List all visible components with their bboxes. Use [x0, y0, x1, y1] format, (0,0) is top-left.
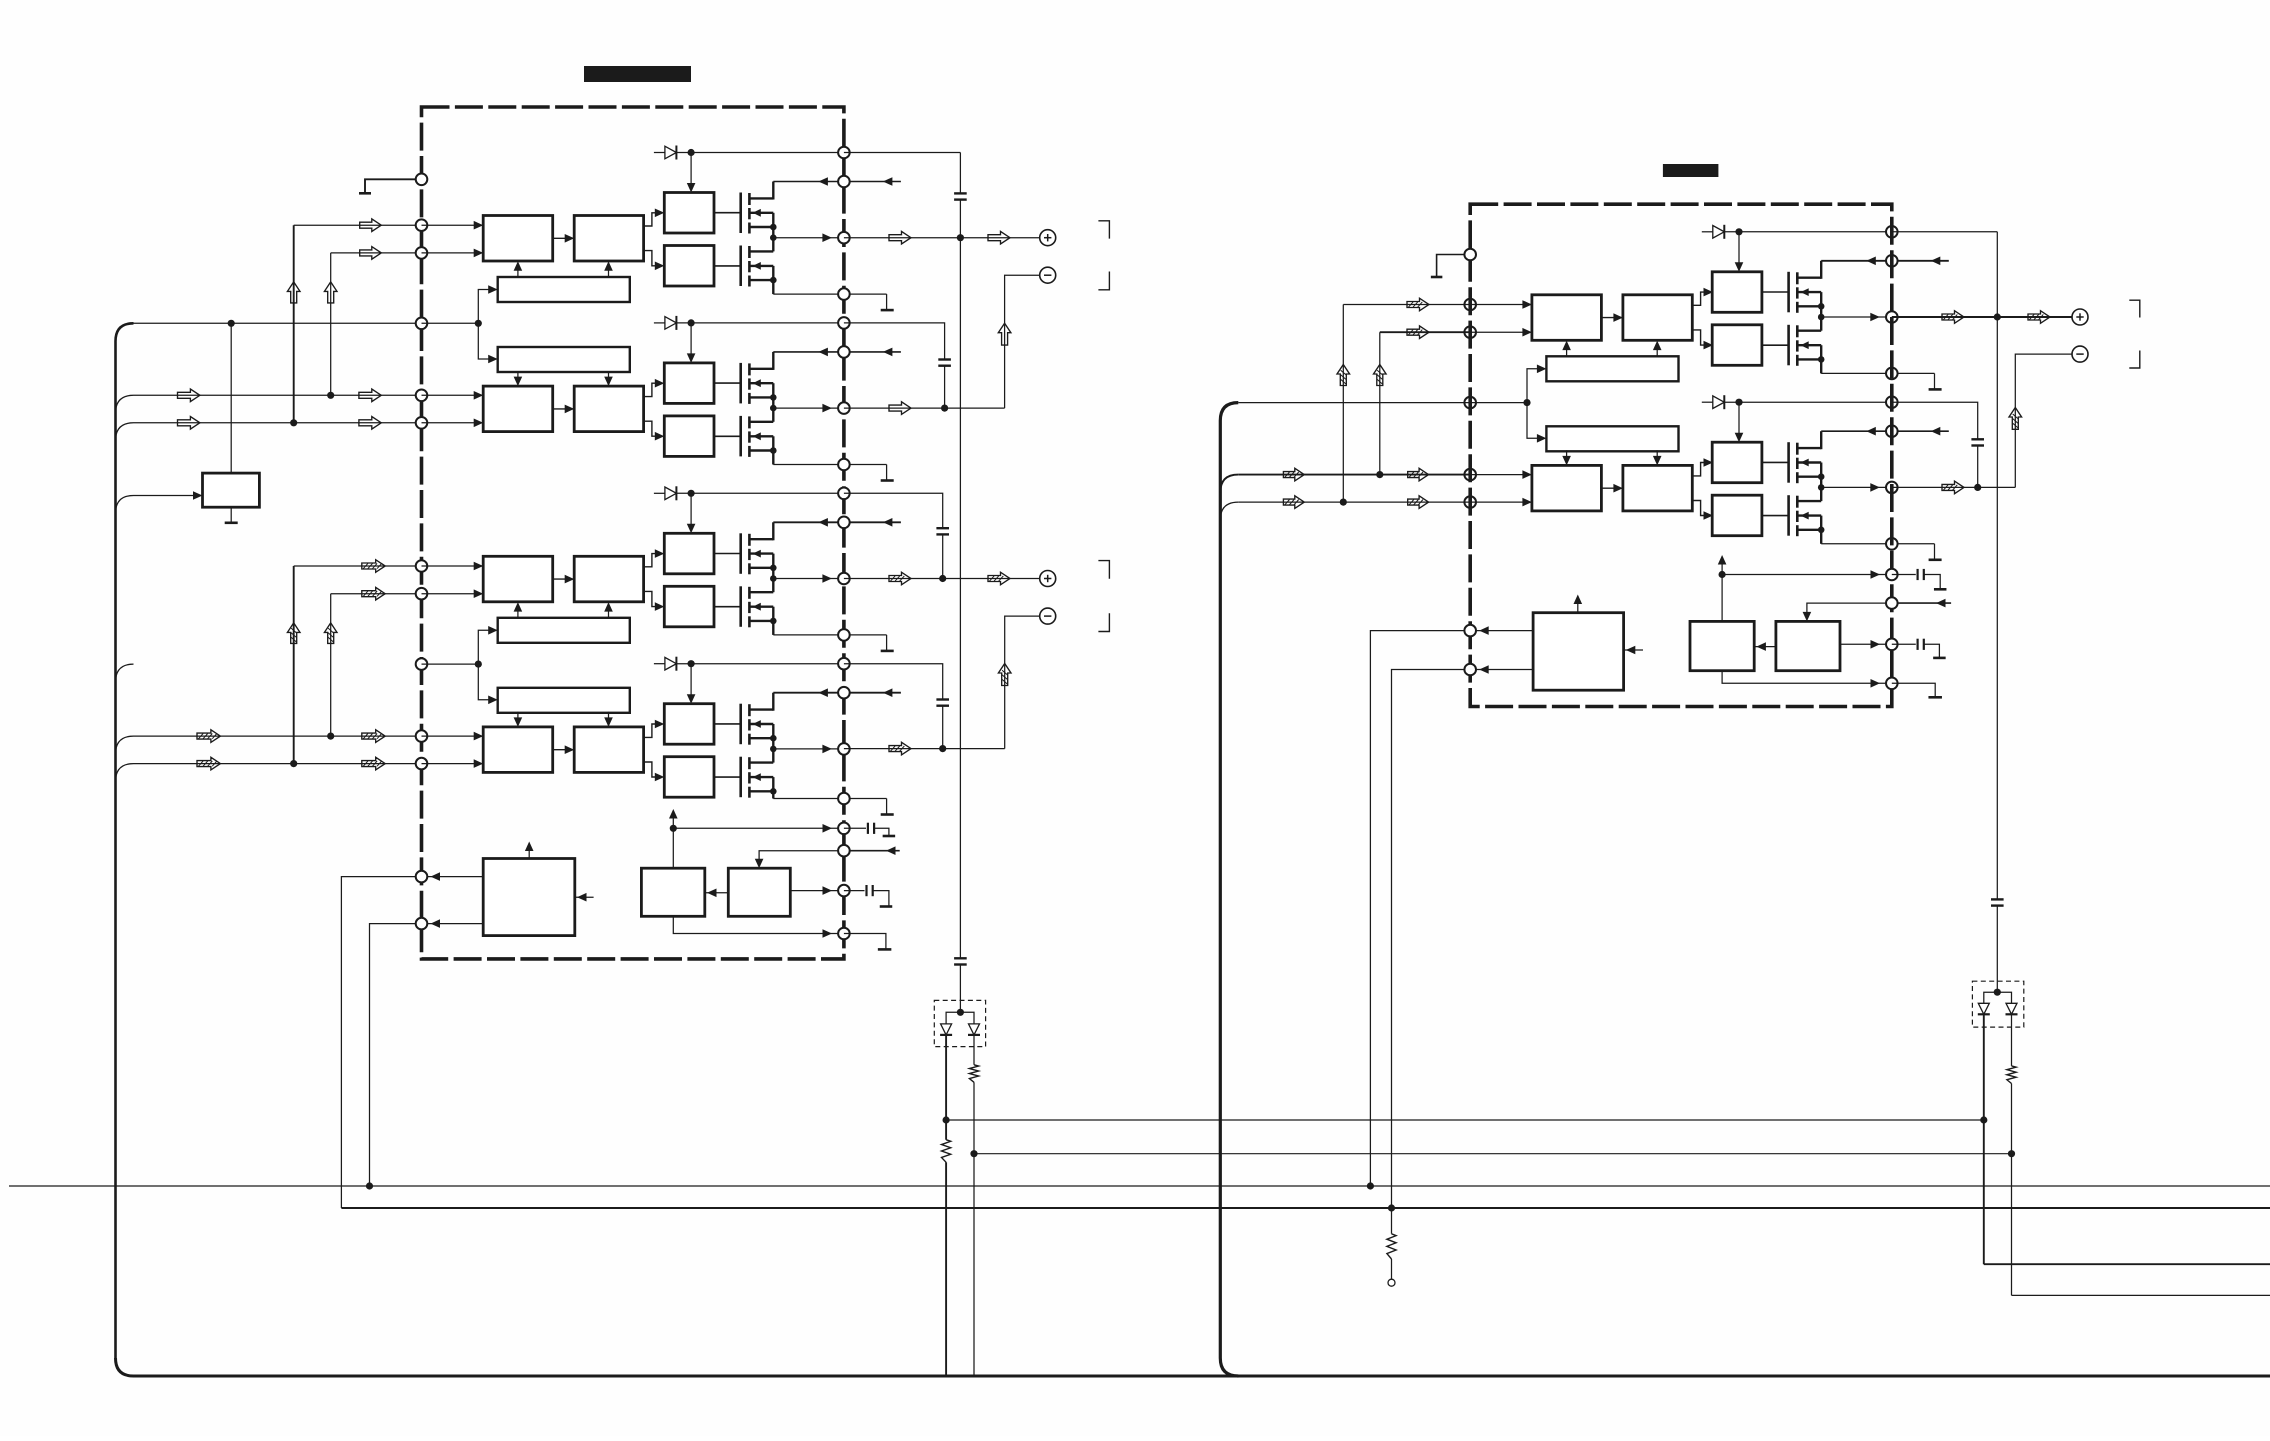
wire R-IN-B row: [1380, 331, 1470, 333]
junction outR1: [1994, 313, 2001, 320]
pin input A-hi: [416, 560, 428, 572]
terminal ROUT-: [2072, 346, 2088, 362]
wire output row inside: [773, 237, 844, 239]
wire source ground stub: [1892, 543, 1935, 545]
wire zener tops right: [1984, 992, 2012, 1003]
wire driver to gate high: [714, 212, 741, 214]
wire block1 to block2 (2): [1601, 487, 1623, 489]
transistor high-side MOSFET: [739, 704, 742, 745]
wire source row: [1821, 543, 1892, 545]
gate driver block low: [664, 586, 714, 627]
gate driver block high: [1712, 442, 1762, 483]
block level shift 1: [574, 556, 643, 602]
transistor high-side MOSFET: [739, 363, 742, 404]
wire to gate driver low 1: [1692, 330, 1709, 345]
resistor RL2: [969, 1065, 978, 1083]
wire input b2 to PWM block: [1470, 501, 1532, 503]
wire block1 to block2: [553, 237, 575, 239]
block PWM logic 2: [1532, 465, 1602, 511]
gate driver block low: [664, 246, 714, 287]
pin output: [838, 743, 850, 755]
gate driver block low: [664, 757, 714, 798]
pin input A-lo: [416, 390, 428, 402]
wire out4 row: [844, 748, 1005, 750]
wire driver to gate low: [1762, 515, 1789, 517]
diode zener R1: [1978, 1003, 1989, 1014]
block dead-time ctrl 2: [1546, 426, 1678, 451]
wire source row: [773, 464, 844, 466]
pin bootstrap: [838, 488, 850, 500]
wire source ground stub: [844, 634, 887, 636]
junction link2: [970, 1150, 977, 1157]
wire driver to gate low: [714, 776, 741, 778]
bootstrap diode: [1702, 401, 1713, 403]
pin vreg2: [1886, 569, 1898, 581]
wire input b2 to PWM block: [422, 422, 484, 424]
capacitor vreg: [844, 827, 866, 829]
wire ref2 to osc2: [1754, 646, 1776, 648]
wire error2 out B: [1470, 669, 1533, 671]
ground: [881, 479, 894, 482]
block reference: [728, 868, 790, 916]
wire drain row: [773, 351, 844, 353]
pin input B-hi: [416, 588, 428, 600]
wire outR1 row: [1892, 316, 2072, 318]
junction: [327, 392, 334, 399]
ground: [225, 521, 238, 524]
ground: [1929, 558, 1942, 561]
wire input b2 to PWM block: [422, 763, 484, 765]
pin output: [838, 232, 850, 244]
block dead-time ctrl 1: [498, 277, 630, 302]
pin VREF with stub: [365, 179, 422, 193]
bootstrap diode: [654, 663, 665, 665]
pin input A-hi: [1464, 299, 1476, 311]
wire status line B: [341, 1207, 2270, 1209]
capacitor vreg2: [1892, 574, 1916, 576]
ground: [1929, 388, 1942, 391]
wire block1 to block2: [1601, 317, 1623, 319]
pin bootstrap: [838, 317, 850, 329]
pin agnd2: [1886, 678, 1898, 690]
wire zener R2 branch: [2011, 1014, 2013, 1066]
wire feedback right 1: [1984, 1263, 2270, 1265]
junction: [1735, 399, 1742, 406]
wire to high driver: [690, 493, 692, 524]
transistor low-side MOSFET: [739, 586, 742, 627]
wire driver to gate low: [714, 435, 741, 437]
capacitor bootR2: [1971, 438, 1984, 440]
wire block1 to block2 (2): [553, 749, 575, 751]
wire standby ground: [230, 507, 232, 523]
pin output: [838, 573, 850, 585]
diode zener L1: [941, 1024, 952, 1035]
wire bootstrap row: [1724, 231, 1892, 233]
block level shift 1: [574, 216, 643, 262]
wire output row inside: [1821, 316, 1892, 318]
transistor low-side MOSFET: [739, 246, 742, 287]
block PWM logic 2: [483, 727, 553, 773]
pin input B-lo: [416, 417, 428, 429]
wire source ground stub: [844, 798, 887, 800]
wire driver to gate high: [714, 553, 741, 555]
pin ref2 stub: [1892, 602, 1951, 604]
wire R-IN2B row: [1238, 501, 1470, 503]
wire boot/zener column right: [1996, 232, 1998, 900]
ground: [881, 813, 894, 816]
wire source ground stub: [844, 464, 887, 466]
transistor low-side MOSFET: [1787, 325, 1790, 366]
pin source: [838, 793, 850, 805]
wire R-INB feeder vertical: [1379, 332, 1381, 474]
wire to gate driver high 2: [644, 383, 661, 396]
wire IN2B row: [134, 422, 422, 424]
junction out4: [939, 745, 946, 752]
wire to high driver: [690, 664, 692, 695]
pin input B-lo: [1464, 496, 1476, 508]
wire drain supply stub: [844, 181, 901, 183]
wire drain row: [1821, 430, 1892, 432]
junction: [1340, 499, 1347, 506]
wire standby row from bus: [134, 495, 198, 497]
pin drain: [1886, 425, 1898, 437]
wire out1 row: [844, 237, 1040, 239]
wire OUT2- link: [1005, 616, 1040, 749]
junction link2 right: [2008, 1150, 2015, 1157]
wire to gate driver low 1: [644, 591, 661, 606]
wire outR2 row: [1892, 486, 2016, 488]
wire source row: [773, 634, 844, 636]
pin bootstrap: [838, 658, 850, 670]
pin error2 B: [1464, 664, 1476, 676]
transistor high-side MOSFET: [739, 193, 742, 234]
transistor high-side MOSFET: [739, 533, 742, 574]
wire err drop left A: [370, 924, 416, 1186]
junction: [228, 320, 235, 327]
wire IN2A row: [134, 394, 422, 396]
wire to gate driver low 1: [644, 251, 661, 266]
wire ROUT- link: [2015, 354, 2072, 487]
wire driver to gate low: [714, 606, 741, 608]
wire bootstrap row: [1724, 401, 1892, 403]
wire output row inside: [773, 578, 844, 580]
wire IN3A feeder vertical: [293, 566, 295, 764]
pin output: [1886, 311, 1898, 323]
pin agnd: [838, 928, 850, 940]
junction link1 right: [1980, 1116, 1987, 1123]
wire input a2 to PWM block: [422, 394, 484, 396]
bracket speaker 2 bottom: [1098, 613, 1109, 631]
wire bootR1 top: [1892, 231, 1998, 233]
block level shift 2: [574, 386, 643, 432]
wire output row inside: [773, 748, 844, 750]
wire bus branch: [116, 664, 134, 682]
wire to high driver: [690, 153, 692, 184]
wire IN3B feeder vertical: [330, 594, 332, 736]
junction zener right: [1994, 989, 2001, 996]
gate driver block high: [664, 193, 714, 234]
wire IN1A feeder vertical: [293, 225, 295, 423]
resistor RL1: [942, 1140, 951, 1163]
wire left vertical bus: [116, 323, 134, 1358]
wire to gate driver high 1: [644, 554, 661, 567]
wire input a2 to PWM block: [422, 735, 484, 737]
IC1 label bar: [584, 66, 691, 82]
bracket speaker 1 bottom: [1098, 272, 1109, 290]
pin drain: [838, 346, 850, 358]
pin osc2 cap: [1886, 639, 1898, 651]
wire right vertical bus: [1220, 403, 1238, 1376]
bracket speaker 1 top: [1098, 221, 1109, 239]
wire protection2 up arrow: [1577, 598, 1579, 613]
wire boot4: [844, 664, 943, 700]
wire to gate driver low 2: [1692, 501, 1709, 516]
IC2 power driver outline: [1470, 204, 1892, 706]
wire driver to gate low: [714, 265, 741, 267]
wire osc top node: [672, 812, 674, 868]
pin error2 A: [1464, 625, 1476, 637]
wire output row inside: [1821, 486, 1892, 488]
wire input a2 to PWM block: [1470, 474, 1532, 476]
wire output row inside: [773, 407, 844, 409]
wire ref to osc: [705, 892, 729, 894]
pin drain: [1886, 255, 1898, 267]
gate driver block low: [1712, 325, 1762, 366]
block PWM logic 1: [1532, 295, 1602, 341]
pin input B-lo: [416, 758, 428, 770]
wire error out B: [422, 923, 484, 925]
junction: [688, 660, 695, 667]
capacitor decouple right: [1991, 898, 2004, 900]
block level shift 1: [1623, 295, 1692, 341]
capacitor decouple left: [954, 957, 967, 959]
wire bus branch: [1220, 475, 1238, 493]
pin source: [838, 629, 850, 641]
pin input A-lo: [416, 730, 428, 742]
transistor low-side MOSFET: [739, 416, 742, 457]
wire drain supply stub: [844, 521, 901, 523]
wire to gate driver low 2: [644, 762, 661, 777]
pin mode: [416, 658, 428, 670]
junction: [1735, 228, 1742, 235]
bootstrap diode: [654, 492, 665, 494]
bootstrap diode: [654, 322, 665, 324]
wire bootstrap row: [676, 492, 844, 494]
wire err drop left B: [341, 877, 415, 1208]
wire bootstrap row: [676, 322, 844, 324]
bootstrap diode: [1702, 231, 1713, 233]
wire bootR2: [1892, 402, 1978, 439]
block protection logic 2: [1533, 613, 1624, 691]
terminal OUT1+: [1040, 230, 1056, 246]
gate driver block high: [1712, 272, 1762, 313]
pin error B: [416, 918, 428, 930]
block PWM logic 2: [483, 386, 553, 432]
wire out2 row: [844, 407, 1005, 409]
wire R-INA feeder vertical: [1342, 305, 1344, 503]
wire driver to gate low: [1762, 344, 1789, 346]
wire to high driver: [1738, 402, 1740, 433]
pin osc cap: [838, 885, 850, 897]
junction: [327, 733, 334, 740]
wire out3 row: [844, 578, 1040, 580]
pin source: [1886, 368, 1898, 380]
wire feedback right 2: [2012, 1294, 2270, 1296]
wire R mode row from bus: [1238, 402, 1470, 404]
resistor RR2: [2007, 1066, 2016, 1084]
diode zener R2: [2006, 1003, 2017, 1014]
wire bus branch: [116, 764, 134, 782]
gate driver block low: [1712, 495, 1762, 536]
wire dtc2 to blocks: [1566, 450, 1568, 463]
block PWM logic 1: [483, 556, 553, 602]
gate driver block high: [664, 704, 714, 745]
block reference 2: [1776, 621, 1840, 670]
pin error A: [416, 871, 428, 883]
wire bus branch: [1220, 502, 1238, 520]
ground: [881, 650, 894, 653]
pin input B-hi: [1464, 326, 1476, 338]
block dead-time ctrl 2: [498, 347, 630, 372]
wire dtc2 to blocks: [517, 712, 519, 725]
wire ref2 top feed: [1807, 603, 1892, 618]
pin bootstrap: [838, 147, 850, 159]
pin mode: [416, 318, 428, 330]
wire dtc2 to blocks: [517, 371, 519, 384]
junction: [688, 149, 695, 156]
wire bootstrap row: [676, 152, 844, 154]
transistor high-side MOSFET: [1787, 442, 1790, 483]
wire block1 to block2: [553, 578, 575, 580]
gate driver block high: [664, 533, 714, 574]
wire IN1B feeder vertical: [330, 253, 332, 395]
pin ref stub: [844, 850, 900, 852]
block protection logic: [483, 859, 575, 936]
wire bootstrap row: [676, 663, 844, 665]
junction: [1376, 471, 1383, 478]
wire dtc1 to blocks: [517, 264, 519, 278]
wire protection up arrow: [528, 845, 530, 859]
capacitor boot3: [936, 527, 949, 529]
wire to gate driver high 2: [1692, 463, 1709, 476]
junction A-right: [1367, 1182, 1374, 1189]
gate driver block high: [664, 363, 714, 404]
wire boot/zener column: [959, 153, 961, 194]
pin bootstrap: [1886, 226, 1898, 238]
wire osc2 cap row: [1840, 643, 1892, 645]
wire to high driver: [690, 323, 692, 354]
pin input B-hi: [416, 247, 428, 259]
wire bus branch: [116, 736, 134, 754]
transistor low-side MOSFET: [1787, 495, 1790, 536]
wire zener tops: [946, 1012, 974, 1024]
diode zener L2: [969, 1024, 980, 1035]
pin bootstrap: [1886, 396, 1898, 408]
wire block1 to block2 (2): [553, 408, 575, 410]
block standby regulator: [203, 473, 260, 507]
pin vreg: [838, 823, 850, 835]
wire drain row: [1821, 260, 1892, 262]
wire agnd stub: [844, 934, 886, 950]
wire mode node: [422, 322, 479, 324]
junction out3: [939, 575, 946, 582]
wire IN3A row: [294, 565, 422, 567]
wire source ground stub: [1892, 372, 1935, 374]
wire drain row: [773, 181, 844, 183]
junction outR2: [1974, 484, 1981, 491]
wire to gate driver high 1: [644, 213, 661, 226]
pin output: [1886, 482, 1898, 494]
resistor pull-down: [1387, 1234, 1396, 1259]
wire IN1B row: [331, 252, 422, 254]
terminal OUT2-: [1040, 608, 1056, 624]
zener clamp box right: [1972, 981, 2023, 1027]
wire input b to PWM block: [422, 593, 484, 595]
wire to gate driver high 1: [1692, 292, 1709, 305]
junction out2: [941, 405, 948, 412]
terminal OUT1-: [1040, 267, 1056, 283]
wire protection right stub: [575, 896, 594, 898]
wire link row 1: [946, 1119, 1984, 1121]
pin input A-hi: [416, 219, 428, 231]
wire driver to gate high: [714, 723, 741, 725]
wire vreg2 row: [1722, 574, 1892, 576]
ground: [881, 309, 894, 312]
wire IN3B row: [331, 593, 422, 595]
pin source: [838, 288, 850, 300]
wire IN1A row: [294, 224, 422, 226]
wire dtc1 to blocks: [1566, 343, 1568, 357]
wire source ground stub: [844, 293, 887, 295]
wire error out A: [422, 876, 484, 878]
terminal OUT2+: [1040, 571, 1056, 587]
pin source: [1886, 538, 1898, 550]
wire IN4B row: [134, 763, 422, 765]
wire osc2 top node: [1721, 558, 1723, 621]
wire source row: [773, 293, 844, 295]
bracket speaker R bottom: [2129, 351, 2140, 369]
block PWM logic 1: [483, 216, 553, 262]
pin drain: [838, 517, 850, 529]
capacitor boot4: [936, 698, 949, 700]
wire mode node: [1470, 402, 1527, 404]
transistor high-side MOSFET: [1787, 272, 1790, 313]
wire agnd2 stub: [1892, 683, 1935, 697]
wire status line A: [9, 1185, 2270, 1187]
wire zener L1 branch: [945, 1035, 947, 1140]
block dead-time ctrl 1: [1546, 356, 1678, 381]
block oscillator 2: [1690, 621, 1754, 670]
wire osc cap row: [790, 890, 844, 892]
wire error2 out A: [1470, 630, 1533, 632]
wire err drop right B: [1392, 670, 1465, 1234]
wire osc2 bottom row: [1722, 671, 1892, 684]
zener clamp box left: [934, 1000, 985, 1046]
wire standby to mode node: [230, 323, 232, 473]
wire zener L2 branch: [973, 1035, 975, 1065]
wire R-IN2A row: [1238, 474, 1470, 476]
wire bus branch: [116, 423, 134, 441]
capacitor osc: [844, 890, 865, 892]
wire main bottom bus: [116, 1358, 2270, 1376]
wire OUT1- link: [1005, 275, 1040, 408]
pin input A-lo: [1464, 469, 1476, 481]
wire to gate driver low 2: [644, 421, 661, 436]
wire bus branch: [116, 496, 134, 514]
gate driver block low: [664, 416, 714, 457]
terminal test point: [1388, 1279, 1395, 1286]
transistor low-side MOSFET: [739, 757, 742, 798]
